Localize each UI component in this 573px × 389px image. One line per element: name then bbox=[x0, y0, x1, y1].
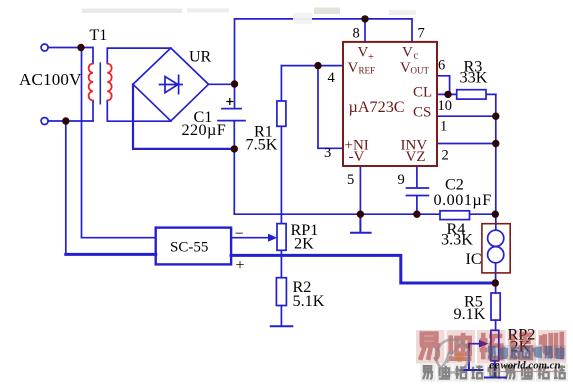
transformer T1 secondary bottom wire bbox=[107, 101, 171, 122]
svg-text:2: 2 bbox=[442, 147, 449, 163]
transformer T1 primary winding bbox=[89, 64, 93, 101]
transformer T1 secondary winding bbox=[107, 64, 111, 101]
watermark row eeworld cjk bbox=[487, 345, 566, 361]
svg-text:c: c bbox=[414, 51, 419, 62]
watermark underline bbox=[488, 371, 563, 373]
svg-text:10: 10 bbox=[438, 98, 453, 114]
junction opto bottom R5 bbox=[492, 279, 499, 286]
diode inside UR bbox=[160, 75, 183, 93]
svg-text:220µF: 220µF bbox=[182, 121, 227, 139]
pin 4 wire bbox=[281, 65, 343, 67]
svg-text:AC100V: AC100V bbox=[19, 70, 82, 89]
watermark row grey slogan bbox=[421, 364, 568, 382]
junction AC input top bbox=[77, 44, 84, 51]
bridge rectifier UR diamond bbox=[133, 48, 209, 121]
wire top terminal to SC-55 bbox=[82, 48, 156, 238]
terminal input bottom bbox=[41, 118, 48, 125]
ground under pin 5 bbox=[351, 214, 371, 233]
wire R1 RP1 R2 vertical bbox=[280, 66, 282, 327]
svg-text:-V: -V bbox=[349, 149, 365, 165]
wire bridge negative rail bbox=[133, 84, 234, 149]
SC-55 plus input thick wire bbox=[66, 253, 156, 256]
SC-55 plus thick wire bbox=[231, 255, 495, 283]
wire bbox=[48, 47, 92, 49]
INV pin 1 wire bbox=[437, 143, 496, 145]
svg-text:5.1K: 5.1K bbox=[293, 292, 325, 310]
junction VREF pin 4 bbox=[314, 62, 321, 69]
wire positive rail top bbox=[235, 19, 413, 84]
resistor R1 bbox=[277, 101, 286, 126]
main horizontal rail bbox=[234, 213, 495, 215]
grey smudge top left bbox=[82, 9, 182, 14]
capacitor C1 bbox=[218, 84, 245, 149]
svg-text:−: − bbox=[235, 226, 244, 243]
watermark eeworld.com.cn bbox=[489, 358, 560, 372]
svg-text:9: 9 bbox=[398, 172, 405, 188]
resistor R5 bbox=[491, 293, 500, 320]
resistor R2 bbox=[276, 278, 286, 306]
C1 plus sign bbox=[226, 98, 233, 105]
IC U1 uA723C box bbox=[343, 42, 437, 166]
wire bbox=[48, 120, 93, 122]
junction R4 opto top bbox=[492, 211, 499, 218]
svg-text:1: 1 bbox=[440, 118, 447, 134]
junction INV pin 1 bbox=[492, 140, 499, 147]
svg-text:REF: REF bbox=[359, 66, 376, 76]
wire pin4 to pin3 bbox=[318, 66, 343, 149]
svg-text:ee: ee bbox=[489, 358, 500, 372]
wire opto bottom to R5 bbox=[495, 263, 497, 293]
grey smudge top middle over wire bbox=[293, 13, 312, 24]
svg-text:UR: UR bbox=[189, 49, 212, 66]
svg-text:V: V bbox=[400, 60, 411, 76]
arrowhead RP1 wiper bbox=[268, 234, 277, 242]
svg-text:V: V bbox=[348, 60, 359, 76]
potentiometer RP1 body bbox=[277, 224, 286, 251]
svg-text:4: 4 bbox=[328, 70, 336, 86]
resistor R3 bbox=[457, 90, 486, 99]
svg-text:SC-55: SC-55 bbox=[170, 240, 208, 256]
ground under R2 bbox=[271, 325, 293, 327]
wire C1 bottom to rail bbox=[233, 149, 235, 214]
svg-text:8: 8 bbox=[353, 26, 360, 42]
potentiometer RP2 body bbox=[491, 330, 499, 361]
transformer core bbox=[99, 62, 101, 104]
pin 6 VOUT wire bbox=[437, 76, 450, 95]
wire bottom terminal down bbox=[65, 121, 67, 254]
svg-text:CS: CS bbox=[413, 105, 431, 121]
svg-text:3: 3 bbox=[324, 145, 331, 161]
wire R5 to RP2 bbox=[495, 320, 497, 330]
grey smudge top right bbox=[389, 10, 416, 15]
SC-55 minus output wire bbox=[231, 237, 268, 239]
wire R3 down to opto bbox=[495, 94, 497, 230]
arrowhead RP2 wiper bbox=[479, 340, 489, 348]
CS pin 10 wire bbox=[437, 115, 496, 117]
svg-text:33K: 33K bbox=[460, 68, 488, 86]
svg-text:5: 5 bbox=[347, 172, 354, 188]
svg-text:2K: 2K bbox=[294, 235, 314, 253]
CL wire to R3 bbox=[437, 93, 496, 95]
resistor R4 bbox=[440, 211, 470, 220]
watermark logo circle bbox=[436, 340, 469, 373]
svg-text:V: V bbox=[358, 45, 369, 61]
junction CL VOUT bbox=[444, 91, 451, 98]
junction C1 negative bbox=[231, 145, 238, 152]
pin 8 stub bbox=[364, 19, 366, 42]
svg-text:VZ: VZ bbox=[406, 149, 426, 165]
watermark row yiditui big red bbox=[416, 330, 567, 364]
svg-text:6: 6 bbox=[438, 57, 445, 73]
svg-text:world.com.cn: world.com.cn bbox=[501, 360, 561, 372]
transformer T1 primary stub top bbox=[92, 48, 94, 64]
RP2 wiper arrow wire bbox=[469, 343, 479, 345]
junction C2 rail bbox=[413, 211, 420, 218]
transformer T1 secondary top wire bbox=[107, 48, 171, 63]
svg-text:+: + bbox=[368, 52, 374, 63]
junction AC input bottom bbox=[62, 117, 69, 124]
svg-text:µA723C: µA723C bbox=[349, 98, 405, 116]
svg-text:CL: CL bbox=[413, 85, 432, 101]
junction pin 5 ground bbox=[357, 211, 364, 218]
junction pin 8 supply bbox=[361, 15, 368, 22]
SC-55 block bbox=[156, 228, 231, 265]
svg-text:OUT: OUT bbox=[411, 66, 430, 76]
wire bridge output to C1 node bbox=[209, 83, 235, 85]
svg-text:7: 7 bbox=[418, 26, 425, 42]
junction bridge output positive bbox=[231, 80, 238, 87]
RP2 bottom ground bbox=[485, 361, 506, 378]
transformer T1 primary stub bottom bbox=[92, 101, 94, 122]
svg-text:IC: IC bbox=[466, 250, 482, 268]
opto lamp circles bbox=[488, 230, 504, 246]
svg-text:3.3K: 3.3K bbox=[441, 230, 473, 248]
terminal input top bbox=[41, 44, 48, 51]
svg-text:+: + bbox=[236, 257, 245, 274]
capacitor C2 bbox=[407, 166, 429, 214]
svg-text:V: V bbox=[402, 45, 413, 61]
svg-text:9.1K: 9.1K bbox=[454, 305, 486, 323]
svg-text:0.001µF: 0.001µF bbox=[434, 191, 492, 209]
opto IC box bbox=[482, 224, 510, 273]
junction CS pin 10 bbox=[492, 113, 499, 120]
svg-text:T1: T1 bbox=[90, 27, 108, 44]
svg-text:7.5K: 7.5K bbox=[246, 136, 278, 154]
RP2 wiper ground bbox=[461, 344, 483, 370]
pin 5 wire bbox=[359, 166, 361, 214]
